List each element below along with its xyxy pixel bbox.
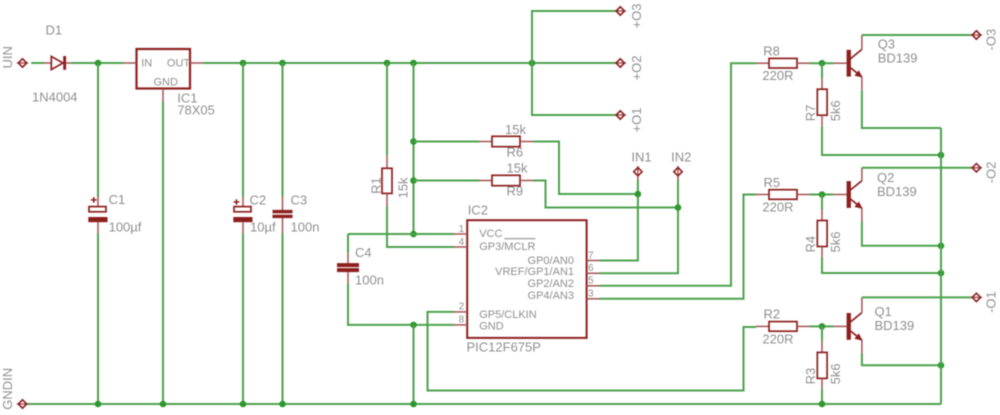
svg-text:UIN: UIN — [0, 46, 15, 68]
junction (243,404) — [240, 401, 247, 408]
junction (822,63.2) — [819, 60, 826, 67]
svg-text:1N4004: 1N4004 — [32, 90, 78, 105]
svg-text:100n: 100n — [355, 273, 384, 288]
svg-text:-O1: -O1 — [984, 291, 999, 313]
wire R8 to Q3 base — [810, 62, 834, 64]
wire C3 branch lower — [282, 234, 284, 405]
svg-text:GND: GND — [154, 76, 179, 88]
junction (413.5,234) — [410, 231, 417, 238]
wire UIN to D1 anode — [31, 62, 44, 64]
junction (677.5,207.5) — [675, 204, 682, 211]
junction (282.5,63) — [279, 60, 286, 67]
diode D1 1N4004 — [32, 23, 78, 105]
svg-text:1: 1 — [459, 224, 465, 235]
wire emitter rail down right side — [940, 128, 942, 404]
wire IC2 pin 2 to R2 (Q1 base drive) — [428, 312, 757, 391]
svg-text:C1: C1 — [109, 192, 126, 207]
wire +5V rail from IC1 OUT to +O2 — [204, 62, 617, 64]
pin 6 VREF/GP1/AN1 — [587, 263, 600, 274]
svg-text:GP4/AN3: GP4/AN3 — [528, 290, 574, 302]
svg-text:220R: 220R — [762, 199, 793, 214]
capacitor C2 10uF polarized — [233, 193, 276, 235]
svg-text:R8: R8 — [763, 43, 780, 58]
svg-text:IN2: IN2 — [671, 149, 691, 164]
wire R9 right to IN2 node — [533, 181, 678, 208]
junction (637,194) — [635, 191, 642, 198]
wire Q2 emitter down — [862, 222, 941, 246]
junction (282.5,404) — [279, 401, 286, 408]
resistor R1 15k — [368, 155, 410, 206]
svg-text:R4: R4 — [803, 236, 818, 253]
capacitor C4 100n — [337, 234, 384, 288]
net IN1 (input connector) — [631, 149, 651, 180]
svg-text:-O3: -O3 — [984, 29, 999, 51]
svg-text:Q2: Q2 — [877, 170, 894, 185]
junction (98,63) — [95, 60, 102, 67]
capacitor C1 100uF polarized — [88, 192, 141, 235]
resistor R7 5k6 — [803, 63, 843, 126]
wire R6 right to IN1 node — [533, 142, 638, 195]
svg-text:6: 6 — [588, 263, 594, 274]
transistor Q2 BD139 — [834, 168, 917, 222]
transistor Q3 BD139 — [834, 35, 918, 90]
junction (163,404) — [160, 401, 167, 408]
junction (822,326.4) — [819, 323, 826, 330]
pin 1 VCC — [454, 224, 467, 235]
junction (941,245.8) — [938, 243, 945, 250]
svg-text:10µf: 10µf — [250, 220, 276, 235]
svg-text:R3: R3 — [803, 368, 818, 385]
net +O3 (output connector) — [615, 4, 644, 29]
svg-text:BD139: BD139 — [878, 51, 918, 66]
wire Q3 emitter down — [862, 90, 941, 128]
wire C2 branch lower — [242, 234, 244, 405]
svg-text:R1: R1 — [368, 177, 383, 194]
svg-text:+O3: +O3 — [629, 4, 644, 29]
svg-text:4: 4 — [459, 237, 465, 248]
wire IN1 to IC2 pin 7 — [600, 180, 638, 261]
svg-text:R5: R5 — [764, 175, 781, 190]
wire R7 bottom to emitter rail — [822, 126, 941, 155]
net +O1 (output connector) — [615, 108, 644, 133]
svg-text:C2: C2 — [250, 193, 267, 208]
net +O2 (output connector) — [615, 56, 644, 81]
ic IC2 PIC12F675P — [467, 203, 587, 355]
net IN2 (input connector) — [671, 149, 691, 180]
resistor R6 15k pull-up — [479, 122, 533, 160]
wire Q1 collector to -O1 — [862, 296, 972, 298]
svg-text:5k6: 5k6 — [828, 363, 843, 384]
svg-text:GNDIN: GNDIN — [0, 368, 15, 410]
resistor R8 220R — [756, 43, 810, 83]
wire R5 to Q2 base — [810, 194, 834, 196]
junction (413.5,63) — [410, 60, 417, 67]
svg-text:C3: C3 — [291, 193, 308, 208]
wire D1 to IC1 IN, junction at C1 branch — [71, 62, 123, 64]
svg-text:OUT: OUT — [167, 57, 191, 69]
junction (98,404) — [95, 401, 102, 408]
resistor R9 15k pull-up — [479, 160, 533, 198]
svg-text:5: 5 — [588, 276, 594, 287]
svg-text:VCC: VCC — [479, 228, 502, 240]
svg-text:R7: R7 — [803, 105, 818, 122]
svg-text:GP3/MCLR: GP3/MCLR — [479, 241, 535, 253]
svg-text:Q3: Q3 — [878, 37, 895, 52]
wire C2 branch upper — [242, 63, 244, 197]
svg-text:GP2/AN2: GP2/AN2 — [528, 278, 574, 290]
junction (941,365.3) — [938, 362, 945, 369]
wire IC2 pin 5 to R8 (Q3 base drive) — [600, 63, 757, 286]
svg-text:BD139: BD139 — [875, 318, 915, 333]
wire R4 bottom to emitter rail — [822, 258, 941, 274]
svg-text:GP5/CLKIN: GP5/CLKIN — [479, 309, 537, 321]
svg-text:R6: R6 — [507, 145, 524, 160]
svg-text:7: 7 — [588, 250, 594, 261]
wire IN2 to IC2 pin 6 — [600, 180, 679, 273]
svg-text:2: 2 — [459, 302, 465, 313]
junction (822,194.5) — [819, 191, 826, 198]
net -O1 (output connector) — [971, 291, 999, 313]
svg-text:GND: GND — [479, 320, 504, 332]
svg-text:15k: 15k — [396, 177, 411, 198]
wire IC1 GND to ground rail — [162, 102, 164, 405]
svg-text:BD139: BD139 — [877, 184, 917, 199]
svg-text:100µf: 100µf — [109, 220, 142, 235]
junction (413.5,180.5) — [410, 177, 417, 184]
svg-text:5k6: 5k6 — [828, 232, 843, 253]
svg-text:PIC12F675P: PIC12F675P — [467, 339, 541, 354]
wire C1 branch upper — [97, 63, 99, 197]
net -O3 (output connector) — [971, 29, 999, 51]
capacitor C3 100n — [273, 193, 320, 235]
junction (941,273) — [938, 270, 945, 277]
net GNDIN (ground input connector) — [0, 368, 28, 410]
junction (941,155) — [938, 152, 945, 159]
svg-text:3: 3 — [588, 289, 594, 300]
svg-text:IN1: IN1 — [631, 149, 651, 164]
wire +5V vertical to VCC — [413, 63, 415, 234]
svg-text:220R: 220R — [762, 331, 793, 346]
wire C1 branch lower — [97, 234, 99, 405]
wire R9 left to +5V vertical — [414, 180, 480, 182]
svg-text:R9: R9 — [507, 184, 524, 199]
junction (387,63) — [384, 60, 391, 67]
wire R1 branch from +5V rail — [386, 63, 388, 155]
net UIN (input connector) — [0, 46, 28, 68]
pin 2 GP5/CLKIN — [454, 302, 467, 313]
junction (822,404) — [819, 401, 826, 408]
svg-text:220R: 220R — [762, 68, 793, 83]
svg-text:100n: 100n — [291, 220, 320, 235]
pin 7 GP0/AN0 — [587, 250, 600, 261]
wire Q3 collector to -O3 — [862, 34, 972, 36]
svg-text:IC2: IC2 — [468, 203, 488, 218]
pin 3 GP4/AN3 — [587, 289, 600, 300]
wire +O3 +O1 feed from +5V rail — [532, 11, 616, 115]
wire R6 left to +5V vertical — [414, 141, 480, 143]
junction (532,63) — [529, 60, 536, 67]
resistor R4 5k6 — [803, 195, 843, 258]
svg-text:8: 8 — [459, 315, 465, 326]
svg-text:+O2: +O2 — [629, 56, 644, 81]
resistor R2 220R — [756, 307, 810, 347]
net -O2 (output connector) — [971, 162, 999, 184]
svg-text:Q1: Q1 — [875, 304, 892, 319]
wire C4 bottom to IC2 pin 8 GND line — [348, 283, 454, 325]
svg-text:R2: R2 — [764, 307, 781, 322]
svg-text:+O1: +O1 — [629, 108, 644, 133]
wire Q1 emitter down — [862, 353, 941, 365]
resistor R5 220R — [756, 175, 810, 215]
junction (413.5,141.5) — [410, 138, 417, 145]
svg-text:IN: IN — [141, 57, 152, 69]
transistor Q1 BD139 — [834, 297, 915, 353]
junction (413.5,404) — [410, 401, 417, 408]
voltage regulator IC1 78X05 — [124, 49, 215, 118]
wire R3 bottom to ground rail — [821, 389, 823, 404]
svg-text:78X05: 78X05 — [177, 103, 215, 118]
pin 8 GND — [454, 315, 467, 326]
wire R1 bottom to IC2 pin 4 GP3/MCLR — [387, 206, 454, 247]
wire C3 branch upper — [282, 63, 284, 197]
pin 5 GP2/AN2 — [587, 276, 600, 287]
wire Q2 collector to -O2 — [862, 167, 972, 169]
svg-text:-O2: -O2 — [984, 162, 999, 184]
junction (243,63) — [240, 60, 247, 67]
resistor R3 5k6 — [803, 326, 843, 389]
svg-text:VREF/GP1/AN1: VREF/GP1/AN1 — [495, 266, 574, 278]
wire GND drop to ground rail — [413, 325, 415, 404]
svg-text:C4: C4 — [355, 245, 372, 260]
pin 4 GP3/MCLR — [454, 237, 467, 248]
svg-text:D1: D1 — [46, 23, 63, 38]
wire R2 to Q1 base — [810, 325, 834, 327]
wire ground rail GNDIN across bottom — [27, 403, 941, 405]
svg-text:GP0/AN0: GP0/AN0 — [528, 255, 574, 267]
wire IC2 pin 3 to R5 (Q2 base drive) — [600, 195, 757, 299]
svg-text:15k: 15k — [505, 122, 526, 137]
svg-text:15k: 15k — [507, 160, 528, 175]
wire VCC line C4 top to IC2 pin 1 — [348, 233, 454, 235]
svg-text:5k6: 5k6 — [828, 100, 843, 121]
junction (413.5,324.9) — [410, 322, 417, 329]
